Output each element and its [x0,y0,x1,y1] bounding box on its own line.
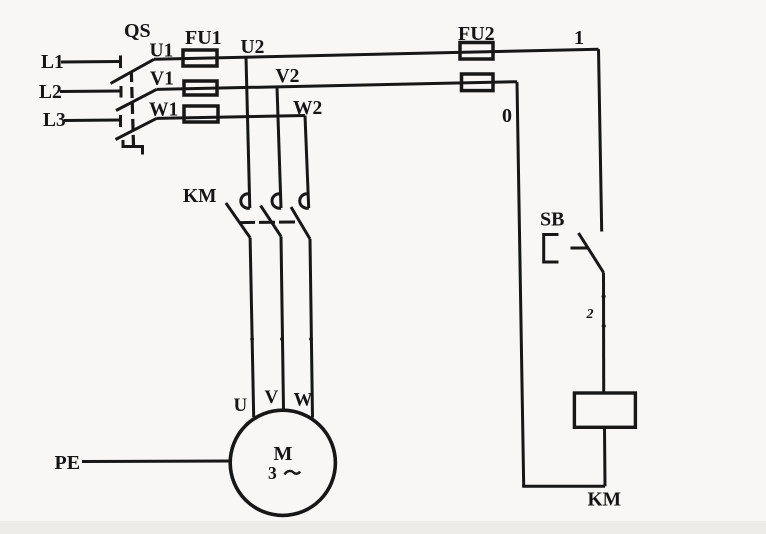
motor M circle [230,410,335,515]
switch QS blade 3 [116,118,157,139]
svg-text:KM: KM [588,490,622,511]
svg-text:W1: W1 [149,100,178,121]
svg-text:U2: U2 [241,37,265,58]
fuse FU1 phase U [183,50,217,66]
svg-text:3: 3 [268,463,277,483]
wire L2 input [60,86,121,98]
contactor KM contact 2 [261,194,281,237]
symbol tilde [285,471,301,475]
switch QS blade 1 [111,59,155,83]
fuse FU1 phase W [184,106,218,122]
wire tick above node 2 [602,294,606,298]
svg-text:W2: W2 [293,98,322,119]
svg-text:W: W [294,390,313,411]
wire L3 input [64,115,121,127]
svg-text:U1: U1 [150,41,174,62]
wire node 2 vertical [602,273,605,394]
wire tick on motor lead U [250,337,254,341]
svg-text:M: M [274,443,293,465]
svg-text:SB: SB [540,209,564,231]
svg-text:FU2: FU2 [458,23,495,45]
svg-text:2: 2 [586,307,594,322]
wire tick on motor lead W [309,337,313,341]
svg-text:L1: L1 [41,52,64,73]
wire row W1 [157,116,306,119]
fuse FU1 phase V [184,81,217,95]
wire PE to motor [82,460,230,464]
wire node 0 vertical [517,82,524,486]
switch QS handle [123,140,143,155]
pushbutton SB linkage dash [571,247,589,250]
svg-text:FU1: FU1 [185,27,222,49]
wire contact2 to motor V [281,236,284,409]
wire V2 vertical [277,87,281,208]
switch QS blade 2 [116,89,157,110]
svg-text:KM: KM [183,186,217,207]
svg-text:1: 1 [574,27,584,49]
wire coil bottom [603,427,607,486]
svg-text:U: U [234,395,248,416]
wire node 1 vertical [599,49,602,231]
wire tick on motor lead V [280,337,284,341]
wire tick below node 2 [602,324,606,328]
fuse FU2 line 1 [460,43,493,60]
svg-text:L2: L2 [39,82,62,103]
contactor KM contact 1 [226,194,250,238]
pushbutton SB blade [579,233,604,273]
wire row U1 [154,49,599,59]
wire row V1 [157,82,518,90]
switch QS linkage dashed bar [131,71,133,145]
svg-text:0: 0 [502,105,512,127]
contactor KM linkage dashed bar [239,221,295,225]
svg-text:L3: L3 [43,110,66,131]
wire bottom horizontal [522,485,605,488]
svg-text:QS: QS [124,20,151,42]
wire contact1 to motor U [250,238,254,417]
page bottom edge shading [0,521,766,534]
coil KM rectangle [574,393,635,427]
wire contact3 to motor W [310,239,313,418]
wire W2 vertical [305,116,309,209]
svg-text:V1: V1 [150,69,174,90]
pushbutton SB actuator bracket [544,235,559,263]
wire U2 vertical [246,57,250,208]
wire L1 input [61,56,121,69]
contactor KM contact 3 [291,194,310,239]
svg-text:V: V [265,387,279,408]
fuse FU2 line 0 [462,74,494,91]
svg-text:V2: V2 [276,66,300,87]
svg-text:PE: PE [55,452,81,474]
